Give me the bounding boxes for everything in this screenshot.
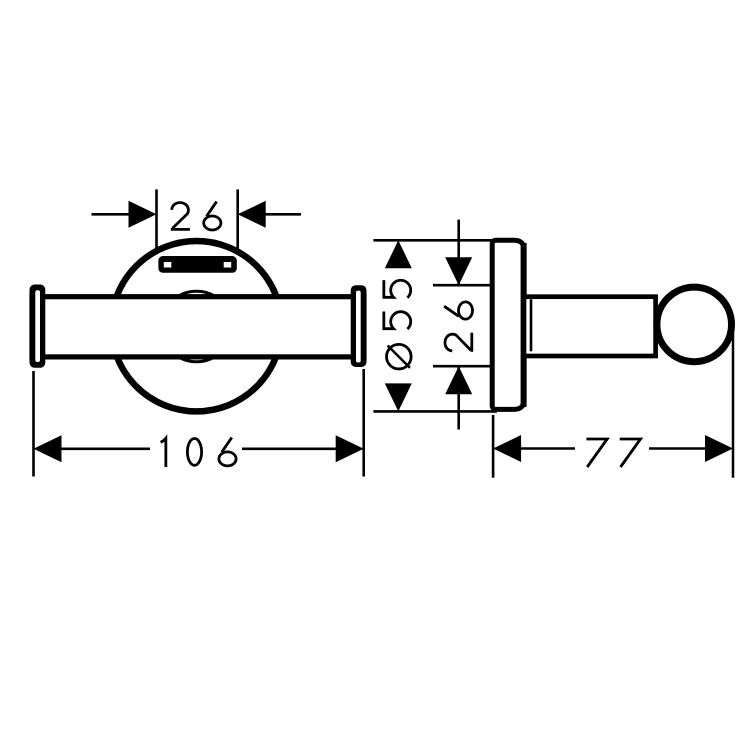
- dim 77: left dim line: [521, 447, 575, 450]
- dim 106: label 1: [161, 438, 166, 467]
- mounting slot: [158, 256, 236, 273]
- dim 77: left arrow: [493, 435, 521, 462]
- dim 77: right dim line: [649, 447, 706, 450]
- dim 106: left dim line: [61, 447, 150, 450]
- dim 106: right arrow: [336, 435, 364, 462]
- dim 26 right: extension line top: [433, 284, 492, 287]
- dim 26 right: bottom arrow: [445, 366, 472, 394]
- slot screw hole right: [224, 262, 232, 268]
- dim 77: label 7: [586, 439, 607, 467]
- wall plate circle (front view): [111, 241, 281, 411]
- right end cap: [351, 285, 367, 367]
- dim 26 top: extension line right: [236, 189, 239, 252]
- dim 26 right: label 6: [444, 302, 472, 319]
- dim 77: extension line right (under ball): [732, 326, 735, 478]
- arm ring line: [530, 299, 533, 351]
- dim 106: label 0: [187, 439, 201, 466]
- dim 77: right arrow: [705, 435, 733, 462]
- dim 26 right: label 2: [445, 333, 472, 352]
- dim 26 right: dimension line top overshoot: [457, 220, 460, 286]
- dim 26 right: top arrow: [445, 257, 472, 285]
- left end cap slit: [35, 290, 40, 362]
- slot screw hole left: [164, 262, 172, 268]
- dim 26 right: extension line bottom: [433, 365, 492, 368]
- dim 106: extension line left: [32, 371, 35, 477]
- wall plate front face edge: [521, 243, 527, 407]
- dim 26 top: left tail line: [92, 213, 130, 216]
- dim 26 right: dimension line bottom overshoot: [457, 366, 460, 429]
- dim 106: label 6: [219, 438, 236, 466]
- dim D55: label 5 second: [384, 280, 411, 298]
- dim 106: left arrow: [34, 435, 62, 462]
- dim D55: extension line top: [373, 239, 497, 242]
- dim 26 top: right arrow: [238, 201, 266, 228]
- dim 26 top: left arrow: [129, 201, 157, 228]
- dim 77: extension line left: [492, 415, 495, 478]
- dim 77: label 7 second: [620, 439, 641, 467]
- dim 106: extension line right: [362, 369, 365, 477]
- left end cap: [30, 285, 46, 368]
- dim D55: label diameter sign: [387, 344, 412, 369]
- hub circle behind bar: [161, 291, 232, 362]
- right end cap slit: [356, 291, 361, 363]
- dim 106: right dim line: [242, 447, 336, 450]
- ball end: [657, 287, 732, 362]
- dim 26 top: label 6: [204, 202, 221, 230]
- arm (side view): [524, 297, 656, 356]
- dim D55: label 5: [384, 312, 411, 330]
- dim D55: top arrow: [385, 240, 412, 268]
- dim 26 top: right tail line: [266, 213, 302, 216]
- dim 26 top: label 2: [171, 203, 190, 230]
- wall plate (side view): [492, 240, 524, 409]
- bar (front view): [32, 297, 364, 357]
- dim D55: extension line bottom: [373, 410, 497, 413]
- dim 26 top: extension line left: [155, 189, 158, 252]
- dim D55: bottom arrow: [385, 383, 412, 411]
